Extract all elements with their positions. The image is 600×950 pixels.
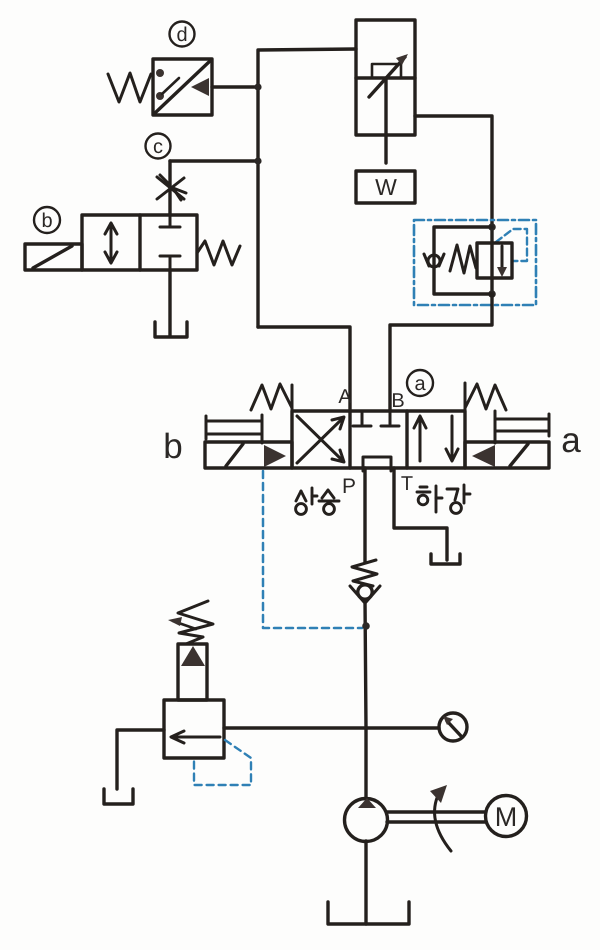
- svg-text:P: P: [342, 475, 356, 498]
- valve b spring: [197, 241, 240, 265]
- contact dot upper: [156, 69, 164, 77]
- relief valve adjustable spring: [178, 601, 213, 644]
- svg-text:a: a: [414, 373, 426, 395]
- wire pump to tank: [364, 841, 367, 924]
- counterbalance valve body: [477, 243, 512, 278]
- weight box W: [356, 171, 415, 203]
- junction pilot on P line: [362, 622, 370, 630]
- wire left main to valve A port: [258, 327, 350, 411]
- check valve seat: [350, 586, 380, 602]
- pressure switch d diagonal: [155, 61, 210, 113]
- wire P line to pump: [364, 728, 367, 799]
- piston rod: [384, 78, 387, 163]
- svg-text:d: d: [176, 24, 187, 46]
- center position blocked port B: [381, 411, 399, 426]
- label b left: [163, 427, 182, 466]
- valve b solenoid box: [25, 244, 82, 270]
- check valve ball: [358, 585, 372, 599]
- left spring: [251, 384, 292, 411]
- piston line: [356, 76, 415, 79]
- pilot triangle d: [191, 78, 209, 96]
- rotation arrow: [430, 785, 451, 851]
- relief valve blue pilot drain: [194, 740, 251, 785]
- label A: [338, 386, 352, 408]
- circled label b: [34, 207, 60, 233]
- left solenoid coil flag: [206, 415, 262, 443]
- junction counterbalance bottom: [488, 290, 496, 298]
- svg-text:b: b: [41, 210, 52, 232]
- label T: [401, 473, 413, 495]
- right position arrow up: [414, 416, 426, 461]
- svg-text:M: M: [495, 802, 518, 832]
- wire c branch down: [168, 161, 171, 215]
- tank below valve b: [155, 322, 187, 337]
- label W: [375, 174, 397, 200]
- wire counterbalance to valve B port: [390, 294, 492, 411]
- relief valve flow arrow: [171, 731, 220, 743]
- relief valve main box: [164, 700, 224, 758]
- pressure switch d box: [153, 59, 212, 115]
- wire relief to tank: [117, 730, 164, 789]
- right solenoid coil flag: [495, 411, 549, 443]
- counterbalance pilot blue dashed: [496, 229, 527, 261]
- korean label rise 상승: [296, 488, 339, 514]
- blue pilot line from valve b position to P line: [263, 471, 362, 628]
- pressure gauge: [439, 713, 467, 741]
- right position arrow down: [446, 416, 458, 461]
- junction c: [254, 157, 261, 164]
- label B: [391, 390, 404, 412]
- pump triangle: [358, 798, 376, 808]
- tank at relief valve: [104, 789, 133, 804]
- wire valve P port down: [363, 468, 366, 562]
- motor circle: [486, 796, 527, 837]
- left position cross arrow 2: [297, 416, 344, 462]
- relief valve spring arrow: [168, 617, 196, 629]
- valve b tank line: [168, 270, 171, 336]
- piston variable arrow: [369, 54, 408, 97]
- wire c branch to main line: [170, 159, 258, 162]
- drive shaft: [387, 812, 486, 822]
- contact dot lower: [156, 92, 164, 100]
- right solenoid box: [465, 442, 549, 468]
- left solenoid triangle: [264, 445, 286, 467]
- main line through counterbalance: [490, 227, 493, 294]
- wire check valve to junction: [365, 600, 366, 728]
- throttle symbol c: [157, 175, 186, 200]
- label a right: [561, 421, 581, 460]
- korean label lower 하강: [417, 485, 470, 513]
- left solenoid box: [205, 442, 292, 468]
- svg-text:B: B: [391, 390, 404, 412]
- counterbalance enclosure blue dashed box: [414, 220, 536, 305]
- check valve spring: [352, 560, 377, 586]
- spring d: [108, 73, 151, 102]
- svg-text:b: b: [163, 427, 182, 466]
- wire d to main line: [212, 85, 258, 88]
- center position bottom notch box: [363, 457, 391, 471]
- counterbalance bypass branch: [434, 227, 492, 294]
- center position blocked port A: [353, 411, 371, 426]
- svg-text:a: a: [561, 421, 581, 460]
- relief valve pilot triangle: [181, 646, 205, 666]
- wire cylinder rod side to counterbalance: [415, 116, 492, 227]
- junction counterbalance top: [488, 223, 496, 231]
- label P: [342, 475, 356, 498]
- valve b flow arrow double headed: [105, 223, 117, 263]
- counterbalance spring: [450, 245, 476, 273]
- svg-text:T: T: [401, 473, 413, 495]
- valve b blocked port bottom: [160, 256, 180, 270]
- circled label a: [407, 370, 433, 396]
- left position cross arrow 1: [297, 417, 344, 463]
- right solenoid triangle: [472, 445, 495, 467]
- pump circle: [345, 799, 388, 842]
- bypass check valve: [424, 254, 444, 267]
- label M: [495, 802, 518, 832]
- valve b body: [82, 215, 197, 270]
- cylinder body: [356, 20, 415, 135]
- svg-text:c: c: [153, 136, 163, 158]
- right spring: [465, 383, 506, 411]
- svg-text:W: W: [375, 174, 397, 200]
- contact lever: [162, 78, 179, 94]
- piston block: [372, 64, 401, 78]
- wire T port to tank: [394, 468, 447, 560]
- circled label d: [170, 22, 195, 47]
- relief valve pilot box: [178, 644, 207, 700]
- circled label c: [146, 134, 171, 159]
- valve b blocked port top: [160, 215, 180, 227]
- counterbalance flow arrow: [497, 246, 507, 277]
- wire cylinder cap to left main line: [258, 49, 356, 327]
- valve body 4/3: [292, 411, 465, 468]
- svg-text:A: A: [338, 386, 352, 408]
- tank at T port: [431, 554, 460, 564]
- wire relief to pump line and gauge: [224, 726, 439, 729]
- junction d: [254, 83, 261, 90]
- main tank: [328, 902, 409, 924]
